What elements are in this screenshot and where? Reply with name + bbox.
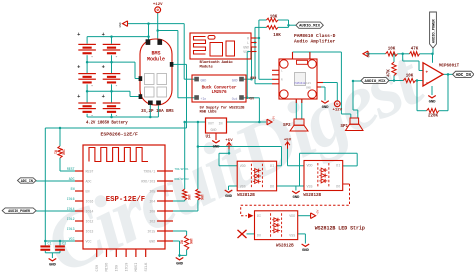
svg-text:VCC: VCC xyxy=(243,50,249,54)
off-sheet connector +5V LED strip xyxy=(311,209,320,218)
bluetooth audio module xyxy=(190,33,257,59)
svg-text:IO16: IO16 xyxy=(86,199,94,203)
svg-text:Audio Amplifier: Audio Amplifier xyxy=(294,38,336,44)
svg-text:LM2576: LM2576 xyxy=(212,90,227,95)
svg-text:3S,2P 10A BMS: 3S,2P 10A BMS xyxy=(141,110,174,114)
wire divider top xyxy=(259,20,296,25)
svg-text:10K: 10K xyxy=(187,194,191,200)
resistor 10K upper divider xyxy=(266,18,278,22)
svg-text:GND: GND xyxy=(211,128,217,132)
wire PAM to SP2 xyxy=(296,99,302,119)
svg-text:GND: GND xyxy=(213,146,221,150)
svg-text:GND: GND xyxy=(250,76,256,80)
wire bluetooth VCC xyxy=(247,51,256,53)
label WS2812B LED Strip xyxy=(315,225,365,231)
svg-text:RXD/GPIO3: RXD/GPIO3 xyxy=(175,177,189,181)
svg-text:Module: Module xyxy=(147,57,165,63)
off-sheet connector GND left of 10K xyxy=(363,51,371,58)
wire opamp plus input xyxy=(403,54,423,71)
svg-text:WS2812B: WS2812B xyxy=(237,194,255,198)
svg-text:MCP6001T: MCP6001T xyxy=(439,64,460,68)
svg-text:IO2: IO2 xyxy=(149,219,155,223)
svg-text:IO5: IO5 xyxy=(149,189,155,193)
capacitor C2 xyxy=(55,243,66,251)
wire pullup R3 net xyxy=(173,122,185,201)
battery B6 18650 cell xyxy=(102,94,121,118)
wire ESP GND pin xyxy=(173,241,180,257)
svg-text:VSS: VSS xyxy=(240,185,246,189)
svg-text:U1: U1 xyxy=(206,136,212,140)
wire battery mid rail 2 xyxy=(87,91,139,96)
label net +5V at buck xyxy=(248,97,254,101)
svg-text:GND: GND xyxy=(293,196,301,200)
ground below op-amp xyxy=(428,96,436,105)
svg-text:R2: R2 xyxy=(180,240,184,244)
ground below module 3 xyxy=(302,244,310,253)
svg-text:Module: Module xyxy=(200,65,214,70)
wire capacitor legs xyxy=(45,241,60,258)
svg-text:AUDIO_POWER: AUDIO_POWER xyxy=(8,209,30,213)
wire module 3 DO stub xyxy=(247,233,255,235)
svg-text:47K: 47K xyxy=(411,48,419,52)
WS2812B module 2 xyxy=(304,161,343,191)
net flag AUDIO_POWER left xyxy=(2,208,36,213)
resistor R3 10K pullup xyxy=(183,189,187,200)
svg-text:10K: 10K xyxy=(62,149,66,155)
svg-text:R: R xyxy=(247,36,249,40)
wire U1 IN net xyxy=(227,98,267,122)
svg-text:+: + xyxy=(77,94,80,100)
svg-text:AUDIO_MIX: AUDIO_MIX xyxy=(299,25,321,29)
svg-text:GND: GND xyxy=(119,22,122,27)
wire buck input wires xyxy=(178,79,195,98)
svg-text:AUDIO_POWER: AUDIO_POWER xyxy=(433,19,437,44)
off-sheet connector GND left of +12V xyxy=(119,21,128,28)
battery B4 18650 cell xyxy=(102,65,121,90)
battery B3 18650 cell xyxy=(77,65,96,90)
label U1 xyxy=(206,136,212,140)
svg-text:+5V: +5V xyxy=(284,138,292,142)
svg-text:ESP-12E/F: ESP-12E/F xyxy=(106,196,145,204)
label SP2 xyxy=(283,124,291,128)
wire ADC net xyxy=(36,180,75,182)
BMS module xyxy=(139,39,174,105)
svg-text:VSS: VSS xyxy=(289,233,295,237)
buck converter LM2576 module xyxy=(192,75,246,102)
wire battery top rail xyxy=(87,36,148,38)
svg-text:+: + xyxy=(425,70,428,75)
wire bluetooth GND xyxy=(252,46,257,48)
wire VCC rail xyxy=(45,240,75,242)
label Bluetooth Audio Module xyxy=(200,60,234,70)
svg-text:10K: 10K xyxy=(189,238,193,244)
label MCP6001T xyxy=(439,64,460,68)
svg-text:IO4: IO4 xyxy=(149,199,155,203)
svg-text:-: - xyxy=(91,84,94,89)
svg-text:ESP8266-12E/F: ESP8266-12E/F xyxy=(101,131,139,137)
svg-text:IO9: IO9 xyxy=(116,265,120,272)
svg-text:GND: GND xyxy=(201,79,207,83)
svg-text:OUT: OUT xyxy=(208,121,214,125)
svg-text:CS0: CS0 xyxy=(96,265,100,272)
svg-text:IO0: IO0 xyxy=(149,209,155,213)
wire net +12V rail xyxy=(158,13,178,98)
wire +5V to module 2 xyxy=(288,148,305,166)
svg-text:+12V: +12V xyxy=(153,3,163,7)
svg-text:-: - xyxy=(115,114,118,119)
svg-text:VDD: VDD xyxy=(289,214,295,218)
connector U1 5V supply xyxy=(206,118,227,140)
svg-text:TXD/GPIO1: TXD/GPIO1 xyxy=(175,167,189,171)
svg-text:+: + xyxy=(102,32,105,38)
ground below capacitors xyxy=(49,259,57,268)
svg-text:IO13: IO13 xyxy=(67,227,75,231)
ground below PAM8610 xyxy=(321,101,329,110)
label WS2812B module 1 xyxy=(237,194,255,198)
net flag AUDIO_POWER vertical xyxy=(430,12,437,48)
svg-text:VDD: VDD xyxy=(240,164,246,168)
wire PAM +12V xyxy=(317,83,337,101)
svg-text:-: - xyxy=(115,84,118,89)
svg-text:10K: 10K xyxy=(200,194,204,200)
wire +5V arrow stem xyxy=(219,149,237,166)
svg-text:REST: REST xyxy=(67,167,75,171)
wire net B- top rail xyxy=(127,24,184,80)
label R2 10K xyxy=(180,238,193,244)
svg-text:GND: GND xyxy=(149,239,155,243)
svg-text:10K: 10K xyxy=(388,48,396,52)
label R1 10K xyxy=(54,149,66,155)
capacitor C1 xyxy=(40,243,51,251)
label R4 10K xyxy=(200,194,204,200)
resistor 10K opamp divider xyxy=(386,52,398,56)
ground below module 2 xyxy=(292,191,300,200)
label 10K xyxy=(388,48,396,52)
label 10K input xyxy=(406,75,414,79)
wire junction dots xyxy=(44,22,449,256)
wire bluetooth L to divider and amp xyxy=(255,27,272,83)
svg-text:ADC_IN: ADC_IN xyxy=(21,180,33,184)
svg-text:+5V: +5V xyxy=(248,97,254,101)
wire module1 DO to module2 DI xyxy=(277,153,358,186)
svg-text:GND: GND xyxy=(225,195,233,199)
svg-text:ADC: ADC xyxy=(86,179,92,183)
svg-text:ADC: ADC xyxy=(69,177,75,181)
svg-text:WS2812B: WS2812B xyxy=(276,244,294,248)
wire PAM GND xyxy=(317,87,325,101)
svg-text:GND: GND xyxy=(322,106,330,110)
wire LED data to module 1 DI xyxy=(198,147,282,166)
svg-text:-: - xyxy=(425,80,428,85)
svg-text:IO14: IO14 xyxy=(67,207,75,211)
label SP1 xyxy=(341,125,349,129)
wire BMS P+ output xyxy=(173,64,187,128)
wire module 3 VSS to GND xyxy=(298,234,306,244)
svg-text:IO13: IO13 xyxy=(86,229,94,233)
label 4.2V 18650 Battery xyxy=(86,121,128,125)
svg-text:+5V: +5V xyxy=(225,139,233,143)
svg-text:-: - xyxy=(115,55,118,60)
wire opamp gnd rail xyxy=(366,48,433,54)
svg-text:GND: GND xyxy=(176,263,184,267)
wire bluetooth R to divider and amp xyxy=(257,20,273,79)
label R3 10K xyxy=(187,194,191,200)
resistor 10K opamp input xyxy=(403,78,415,82)
wire audio mix to opamp xyxy=(389,80,423,82)
svg-text:DO: DO xyxy=(257,233,261,237)
svg-text:RXD/IO3: RXD/IO3 xyxy=(141,179,155,183)
wire opamp V+ xyxy=(432,54,434,63)
svg-text:SP1: SP1 xyxy=(341,125,349,129)
resistor R4 10K pullup xyxy=(196,189,200,200)
wire PAM outputs top to SP1 xyxy=(293,52,351,118)
net flag AUDIO_MIX center xyxy=(296,22,323,29)
wire pullup R4 net xyxy=(173,122,198,211)
resistor 47K vertical xyxy=(392,62,396,76)
PAM8610 amplifier module xyxy=(272,52,323,103)
label 220K xyxy=(428,115,439,119)
wire module 2 VSS to GND xyxy=(296,186,304,191)
svg-text:DO: DO xyxy=(270,185,274,189)
svg-text:IO16: IO16 xyxy=(67,197,75,201)
svg-text:PAM8610 Class-D: PAM8610 Class-D xyxy=(294,33,336,39)
svg-text:+5V: +5V xyxy=(273,116,276,121)
speaker SP2 xyxy=(290,119,308,131)
label WS2812B module 2 xyxy=(303,194,321,198)
label 47K vertical xyxy=(388,69,392,77)
svg-text:VSS: VSS xyxy=(307,184,313,188)
op-amp U2 MCP6001T xyxy=(423,63,443,86)
wire 47K feedback taps xyxy=(393,54,395,81)
wire AUDIO_MIX tap to SP1 xyxy=(353,81,362,118)
svg-text:+: + xyxy=(102,65,105,71)
svg-text:10K: 10K xyxy=(406,75,414,79)
svg-text:DI: DI xyxy=(270,164,274,168)
wire battery mid rail 1 xyxy=(87,62,139,78)
svg-text:IO14: IO14 xyxy=(86,209,94,213)
svg-text:GND: GND xyxy=(302,249,310,253)
label ESP8266-12E/F xyxy=(101,131,139,137)
svg-text:-: - xyxy=(91,55,94,60)
power +5V near U1 xyxy=(225,139,233,149)
wire battery bottom rail xyxy=(87,105,158,117)
label WS2812B module 3 xyxy=(276,244,294,248)
power +12V top xyxy=(153,3,163,13)
label PAM8610 Class-D Audio Amplifier xyxy=(294,33,336,45)
wire dashed LED strip continuation xyxy=(241,184,350,218)
net flag AUDIO_MIX opamp input xyxy=(361,77,389,84)
wire +5V rail to U1 xyxy=(185,121,206,123)
ESP-12E/F module xyxy=(67,145,189,272)
svg-text:+: + xyxy=(77,32,80,38)
svg-text:DI: DI xyxy=(336,164,340,168)
resistor 220K feedback xyxy=(427,109,439,113)
wire opamp output xyxy=(443,73,453,75)
wire buck +5V out xyxy=(244,52,260,98)
label 10K lower xyxy=(273,34,281,38)
svg-text:SCLK: SCLK xyxy=(145,262,149,272)
svg-text:+: + xyxy=(102,94,105,100)
svg-text:IN: IN xyxy=(219,121,223,125)
svg-text:IO10: IO10 xyxy=(125,263,129,272)
svg-text:C1: C1 xyxy=(48,243,52,247)
resistor 10K lower divider xyxy=(266,26,278,30)
net flag ADC_IN left xyxy=(18,178,37,184)
svg-text:Out: Out xyxy=(232,97,238,101)
svg-text:10K: 10K xyxy=(273,34,281,38)
svg-text:10K: 10K xyxy=(270,15,278,19)
wire opamp V- xyxy=(431,86,433,95)
svg-text:MISO: MISO xyxy=(106,262,110,272)
svg-text:DO: DO xyxy=(336,184,340,188)
ground below U1 xyxy=(212,141,220,150)
svg-text:220K: 220K xyxy=(428,115,439,119)
svg-text:+In: +In xyxy=(201,97,207,101)
svg-text:VDD: VDD xyxy=(307,164,313,168)
wire vertical to REST via R1 xyxy=(60,128,75,171)
wire battery column 2 xyxy=(111,37,113,117)
label 3S 2P 10A BMS xyxy=(141,110,174,114)
svg-text:IO12: IO12 xyxy=(86,219,94,223)
svg-text:GND: GND xyxy=(243,45,249,49)
svg-text:GND: GND xyxy=(368,52,371,57)
svg-text:MOSI: MOSI xyxy=(135,263,139,272)
ground below R2 xyxy=(176,258,184,267)
svg-text:GND: GND xyxy=(306,87,311,90)
power +12V below PAM8610 xyxy=(332,101,342,113)
off-sheet connector +5V right of U1 xyxy=(267,116,276,125)
svg-text:4.2V 18650 Battery: 4.2V 18650 Battery xyxy=(86,121,128,125)
WS2812B module 1 xyxy=(237,161,276,191)
svg-text:REST: REST xyxy=(86,169,94,173)
svg-text:L: L xyxy=(247,41,249,45)
svg-text:C2: C2 xyxy=(62,243,66,247)
svg-text:WS2812B LED Strip: WS2812B LED Strip xyxy=(315,225,365,231)
svg-text:EN: EN xyxy=(86,189,90,193)
svg-text:+5V: +5V xyxy=(316,209,319,214)
net flag ADC_IN output xyxy=(453,71,474,78)
battery B2 18650 cell xyxy=(102,32,121,60)
resistor 47K opamp divider xyxy=(410,52,420,56)
wire module 1 VSS stub xyxy=(229,186,238,190)
resistor R1 10K xyxy=(58,146,62,158)
svg-text:R1: R1 xyxy=(54,150,58,154)
svg-text:-: - xyxy=(91,114,94,119)
svg-text:+12V: +12V xyxy=(332,109,342,113)
power +5V module 2 xyxy=(284,138,292,148)
speaker SP1 xyxy=(346,118,364,131)
label 5V Supply for WS2812B RGB LEDs xyxy=(200,105,246,114)
WS2812B module 3 xyxy=(255,211,298,240)
wire buck GND out xyxy=(244,47,252,79)
svg-text:ADC_IN: ADC_IN xyxy=(456,74,472,78)
svg-text:VCC: VCC xyxy=(86,239,92,243)
battery B1 18650 cell xyxy=(77,32,96,60)
battery B5 18650 cell xyxy=(77,94,96,118)
no-connect cross on module 3 DO xyxy=(238,230,247,238)
wire BMS B- vertical xyxy=(148,24,150,40)
svg-text:Bluetooth Audio: Bluetooth Audio xyxy=(200,60,234,65)
label net GND at buck xyxy=(250,76,256,80)
svg-text:+: + xyxy=(77,65,80,71)
svg-text:TXD0/1: TXD0/1 xyxy=(143,169,155,173)
label 47K xyxy=(411,48,419,52)
svg-text:RGB LEDs: RGB LEDs xyxy=(200,110,218,114)
wire IO15 to R2 xyxy=(173,231,187,255)
wire AUDIO_POWER net xyxy=(36,210,75,212)
svg-text:IO12: IO12 xyxy=(67,217,75,221)
svg-text:IO15: IO15 xyxy=(147,229,155,233)
svg-text:GND: GND xyxy=(232,79,238,83)
ground below module 1 xyxy=(225,190,233,199)
wire 3V3 rail above ESP xyxy=(45,127,186,129)
svg-text:47K: 47K xyxy=(388,69,392,77)
svg-text:WS2812B: WS2812B xyxy=(303,194,321,198)
svg-text:EN: EN xyxy=(71,187,75,191)
wire battery column 1 xyxy=(86,37,88,117)
svg-text:AUDIO_MIX: AUDIO_MIX xyxy=(364,80,386,84)
svg-text:SP2: SP2 xyxy=(283,124,291,128)
svg-text:VCC: VCC xyxy=(69,237,75,241)
svg-text:GND: GND xyxy=(429,101,437,105)
wire vertical to VCC xyxy=(44,128,46,241)
wire divider bottom xyxy=(255,25,289,27)
svg-text:DI: DI xyxy=(257,214,261,218)
resistor R2 10K xyxy=(184,235,188,249)
svg-text:GND: GND xyxy=(49,264,57,268)
wire module 3 VDD to +5V arrow xyxy=(298,215,311,217)
label 10K upper xyxy=(270,15,278,19)
svg-text:+12V: +12V xyxy=(304,82,311,85)
wire opamp feedback xyxy=(417,74,448,110)
